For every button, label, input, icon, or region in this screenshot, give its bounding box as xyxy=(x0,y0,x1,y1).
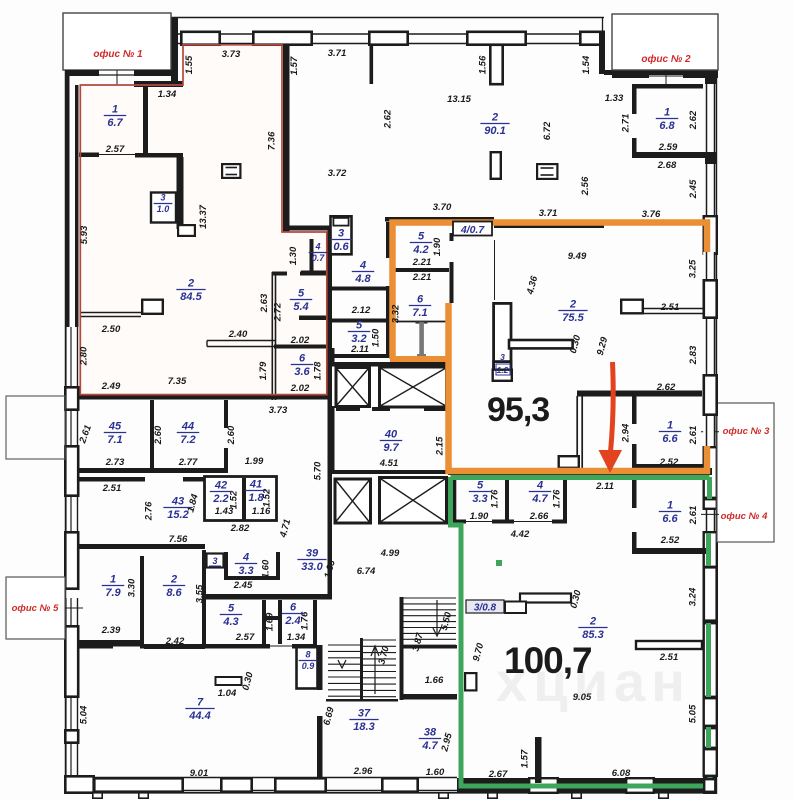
svg-text:9.49: 9.49 xyxy=(568,251,587,262)
wall top of office1 left part xyxy=(65,70,99,76)
svg-text:2.42: 2.42 xyxy=(165,636,185,647)
svg-text:7.36: 7.36 xyxy=(267,131,278,150)
svg-text:45: 45 xyxy=(108,421,122,433)
svg-text:1.34: 1.34 xyxy=(158,89,177,100)
svg-text:2.11: 2.11 xyxy=(595,481,614,492)
room 1-6.6 upper left wall xyxy=(632,396,637,424)
wall below office2 box right xyxy=(683,74,718,78)
svg-text:2.57: 2.57 xyxy=(105,144,125,155)
small wall box on green left edge xyxy=(465,673,476,690)
svg-text:33.0: 33.0 xyxy=(301,561,323,573)
wall above room 1-6.7 xyxy=(134,81,183,87)
svg-text:2.12: 2.12 xyxy=(351,305,371,316)
svg-text:2.56: 2.56 xyxy=(580,176,591,196)
svg-text:1.34: 1.34 xyxy=(287,632,306,643)
svg-text:2.52: 2.52 xyxy=(660,535,680,546)
green dot xyxy=(496,560,502,566)
svg-text:2.57: 2.57 xyxy=(235,632,255,643)
closet divider xyxy=(266,616,278,620)
svg-text:1: 1 xyxy=(667,420,673,432)
svg-text:2.94: 2.94 xyxy=(621,423,632,443)
I-beam column symbol xyxy=(416,321,428,324)
right bottom corner block xyxy=(703,777,717,794)
wall y~546 top of rooms row xyxy=(79,544,205,549)
svg-text:2.68: 2.68 xyxy=(657,160,677,171)
rooms 5-4.3 6-2.4 walls xyxy=(262,600,266,644)
room 3 box xyxy=(207,554,224,568)
door box on 95.3 bottom wall xyxy=(559,456,579,468)
svg-text:4.99: 4.99 xyxy=(380,548,400,559)
svg-text:1.79: 1.79 xyxy=(258,361,269,380)
left bottom corner block xyxy=(64,776,79,794)
svg-text:15.2: 15.2 xyxy=(167,509,188,521)
tick xyxy=(439,793,448,798)
svg-text:2.80: 2.80 xyxy=(79,346,90,366)
svg-text:2.11: 2.11 xyxy=(350,344,369,355)
rooms 5-3.3 and 4-4.7 walls xyxy=(453,479,457,523)
svg-text:2: 2 xyxy=(187,278,194,290)
elevator shaft S4 xyxy=(380,478,447,524)
bottom wall pier xyxy=(221,778,251,791)
office 1 leader xyxy=(116,70,118,85)
svg-text:0.7: 0.7 xyxy=(312,253,326,263)
svg-text:2.72: 2.72 xyxy=(273,302,284,322)
svg-text:0.6: 0.6 xyxy=(333,241,349,253)
rooms 1-7.9 2-8.6 walls xyxy=(140,556,144,644)
svg-text:9.01: 9.01 xyxy=(190,768,209,779)
T-wall horizontal channel xyxy=(509,340,573,348)
right wall pier re-over orange xyxy=(704,375,717,414)
door line xyxy=(466,521,492,523)
svg-text:1.16: 1.16 xyxy=(252,506,271,517)
left wall double line upper part xyxy=(65,70,70,327)
room 4-3.3 walls xyxy=(224,552,228,580)
staircase flight B treads right xyxy=(363,639,396,641)
svg-text:2.62: 2.62 xyxy=(383,109,394,129)
svg-text:4.8: 4.8 xyxy=(354,273,371,285)
top wall of 95.3 region (under orange) xyxy=(385,217,494,222)
wall between rooms 84.5 and 90.1 xyxy=(283,45,290,232)
svg-text:1.33: 1.33 xyxy=(605,93,624,104)
svg-text:6.8: 6.8 xyxy=(659,120,675,132)
corridor bottom wall y~597 xyxy=(205,594,332,600)
red outline office 1 apartment xyxy=(80,45,326,395)
svg-text:2.02: 2.02 xyxy=(290,383,310,394)
svg-text:2.66: 2.66 xyxy=(529,511,549,522)
staircase flight B treads left xyxy=(328,644,360,646)
svg-text:6.6: 6.6 xyxy=(662,513,678,525)
svg-text:2.21: 2.21 xyxy=(412,257,432,268)
svg-text:4/0.7: 4/0.7 xyxy=(460,224,486,236)
tick xyxy=(93,793,102,798)
svg-text:2.59: 2.59 xyxy=(658,142,678,153)
svg-text:6.74: 6.74 xyxy=(357,566,376,577)
wall above room 6-3.6 xyxy=(274,345,330,349)
exterior top-right wall (office 2 block) xyxy=(604,70,718,75)
svg-text:2.60: 2.60 xyxy=(226,425,237,445)
svg-text:4.42: 4.42 xyxy=(510,529,530,540)
svg-text:2.50: 2.50 xyxy=(101,324,121,335)
svg-text:0.9: 0.9 xyxy=(302,661,315,671)
room 4-0.7b box xyxy=(453,222,492,236)
svg-text:1.90: 1.90 xyxy=(432,237,443,256)
exterior top wall xyxy=(171,17,604,19)
wall 2.51 upper with end box xyxy=(621,300,643,314)
svg-text:1.30: 1.30 xyxy=(288,246,299,265)
wall stub 0.30 (near 2-85.3) xyxy=(520,594,571,603)
end box of wall 2.50 xyxy=(142,300,163,314)
svg-text:3.3: 3.3 xyxy=(238,565,253,577)
wall x 576-583 vertical xyxy=(576,396,578,468)
right wall pier xyxy=(704,749,717,776)
top wall pier xyxy=(580,32,603,45)
svg-text:4: 4 xyxy=(314,242,320,252)
bottom wall pier (green zone) xyxy=(529,778,558,793)
svg-text:1.55: 1.55 xyxy=(184,55,195,74)
svg-text:13.15: 13.15 xyxy=(447,94,471,105)
svg-text:1.57: 1.57 xyxy=(520,749,531,768)
wall in 5-4.2 column xyxy=(392,268,449,272)
svg-text:3.24: 3.24 xyxy=(688,587,699,606)
wall between 44.4 and 37-18.3 xyxy=(317,645,323,690)
wall below room 4-4.8 xyxy=(330,287,388,291)
green outline 100.7 office xyxy=(451,475,710,480)
left wall pier xyxy=(65,446,78,495)
svg-text:5.4: 5.4 xyxy=(293,301,308,313)
svg-text:13.37: 13.37 xyxy=(198,204,209,228)
right wall pier (green) xyxy=(704,532,717,567)
bottom wall pier xyxy=(275,778,325,791)
wall stub 1.57 bottom xyxy=(535,737,542,783)
right wall pier xyxy=(704,499,717,509)
svg-text:1.76: 1.76 xyxy=(552,489,563,508)
lobby walls around 40-9.7 xyxy=(330,470,450,474)
svg-text:1: 1 xyxy=(667,500,673,512)
svg-text:5.93: 5.93 xyxy=(79,225,90,244)
rooms 42-2.2 41-1.8 box xyxy=(205,477,277,521)
T-wall vertical channel xyxy=(494,303,511,378)
door line room 1-6.7 xyxy=(99,154,135,156)
svg-text:3.71: 3.71 xyxy=(328,48,347,59)
svg-text:1.66: 1.66 xyxy=(425,675,444,686)
svg-text:офис № 5: офис № 5 xyxy=(12,603,59,614)
svg-text:3.71: 3.71 xyxy=(539,208,558,219)
room 1-6.6 lower bottom wall thick xyxy=(632,548,707,554)
wall 2.40 double xyxy=(207,340,275,342)
svg-text:44: 44 xyxy=(181,421,194,433)
svg-text:41: 41 xyxy=(249,479,262,491)
right wall pier (green) xyxy=(704,728,717,748)
svg-text:5: 5 xyxy=(298,288,305,300)
red arrow xyxy=(611,362,614,452)
corridor wall x~328 lower xyxy=(328,400,333,598)
right wall pier (green) xyxy=(704,623,717,697)
svg-text:5: 5 xyxy=(477,480,484,492)
left balcony outline xyxy=(6,396,65,459)
svg-text:1.04: 1.04 xyxy=(218,688,237,699)
left wall pier xyxy=(65,626,78,696)
room 3-1.2 box xyxy=(494,362,511,379)
svg-text:5: 5 xyxy=(228,603,235,615)
right wall window covers over orange xyxy=(703,252,714,280)
svg-text:1.69: 1.69 xyxy=(265,612,276,631)
svg-text:1.0: 1.0 xyxy=(157,204,170,214)
svg-text:2: 2 xyxy=(569,299,576,311)
svg-text:38: 38 xyxy=(424,727,437,739)
box 3-0.8 xyxy=(505,602,526,614)
svg-text:офис № 1: офис № 1 xyxy=(93,48,143,60)
svg-text:6.72: 6.72 xyxy=(542,121,553,140)
svg-text:2.62: 2.62 xyxy=(656,382,676,393)
svg-text:2.73: 2.73 xyxy=(105,457,125,468)
svg-text:7: 7 xyxy=(197,697,204,709)
svg-text:2: 2 xyxy=(491,112,498,124)
svg-text:3: 3 xyxy=(500,352,505,362)
svg-text:44.4: 44.4 xyxy=(188,710,210,722)
stairwell left wall xyxy=(400,597,404,700)
right wall pier re-over orange xyxy=(704,280,717,317)
svg-text:3.6: 3.6 xyxy=(294,366,310,378)
wall below room 5-5.4 xyxy=(299,316,328,321)
shafts S1-S2 bottom ledge xyxy=(336,407,360,411)
left wall of small rooms cluster xyxy=(271,272,273,400)
svg-text:2.51: 2.51 xyxy=(102,483,122,494)
tick xyxy=(659,793,668,798)
svg-text:3.72: 3.72 xyxy=(328,168,347,179)
stairs arrow A xyxy=(436,600,438,634)
bottom wall dark band under green xyxy=(457,778,712,792)
stairs chevron xyxy=(338,660,346,668)
wall piece left of stairs xyxy=(400,694,457,700)
pier stub 1.56 xyxy=(490,45,502,84)
svg-text:3.76: 3.76 xyxy=(642,209,661,220)
window rect in room 90.1 left xyxy=(222,164,240,178)
tick xyxy=(488,793,497,798)
svg-text:1.50: 1.50 xyxy=(371,328,382,347)
room 8-0.9 box xyxy=(297,647,318,689)
svg-text:3: 3 xyxy=(212,556,217,566)
svg-text:3.70: 3.70 xyxy=(433,202,452,213)
bottom wall 5-3.3 seg xyxy=(452,520,466,524)
svg-text:2.52: 2.52 xyxy=(659,457,679,468)
room 1-6.6 lower xyxy=(632,480,637,508)
bottom wall outer face xyxy=(64,792,717,794)
svg-text:7.9: 7.9 xyxy=(105,587,121,599)
svg-text:1.2: 1.2 xyxy=(497,365,509,375)
wall stub lower xyxy=(491,152,501,179)
svg-text:2.49: 2.49 xyxy=(101,381,121,392)
svg-text:5: 5 xyxy=(418,231,425,243)
svg-text:5.04: 5.04 xyxy=(79,705,90,724)
svg-text:100,7: 100,7 xyxy=(504,640,592,681)
corridor wall x~328 xyxy=(328,230,333,400)
wall jog to corridor xyxy=(288,226,330,231)
svg-text:1.90: 1.90 xyxy=(470,511,489,522)
right wall pier xyxy=(704,567,717,620)
top wall pier xyxy=(181,32,219,45)
svg-text:офис № 3: офис № 3 xyxy=(723,426,770,437)
room 1-6.7 right wall xyxy=(143,87,148,153)
svg-text:1: 1 xyxy=(110,574,116,586)
svg-text:3.32: 3.32 xyxy=(391,304,402,323)
svg-text:3.2: 3.2 xyxy=(351,333,366,345)
left wall pier xyxy=(65,730,78,742)
svg-text:4.7: 4.7 xyxy=(421,740,438,752)
svg-text:2.51: 2.51 xyxy=(660,302,680,313)
svg-text:2.61: 2.61 xyxy=(688,506,699,526)
wall above shafts S1 S2 xyxy=(330,362,450,367)
svg-text:8.6: 8.6 xyxy=(166,587,182,599)
top-right corner wall xyxy=(602,17,604,32)
door line office1 entry xyxy=(99,74,134,76)
tick xyxy=(572,793,581,798)
svg-text:7.1: 7.1 xyxy=(107,434,122,446)
window sill in room 44.4 xyxy=(216,677,242,685)
svg-text:3: 3 xyxy=(160,193,165,203)
elevator shaft S1 xyxy=(336,368,370,407)
wall 3.71 segment xyxy=(494,222,604,228)
top wall pier xyxy=(467,32,525,45)
svg-text:6.08: 6.08 xyxy=(612,768,631,779)
svg-text:39: 39 xyxy=(306,548,319,560)
svg-text:2.63: 2.63 xyxy=(259,293,270,313)
svg-text:3.3: 3.3 xyxy=(472,493,487,505)
left wall pier xyxy=(65,532,78,588)
main wall under orange/green band xyxy=(448,468,712,475)
svg-text:1.60: 1.60 xyxy=(261,559,272,578)
stairwell mid landing wall xyxy=(400,645,457,649)
bottom wall pier (green zone) xyxy=(626,778,654,793)
svg-text:3.73: 3.73 xyxy=(269,405,288,416)
staircase flight A treads xyxy=(402,597,456,599)
svg-text:1.99: 1.99 xyxy=(245,456,264,467)
office 5 label box xyxy=(6,577,65,639)
wall below office2 box left xyxy=(612,74,649,78)
svg-text:4.3: 4.3 xyxy=(222,616,238,628)
svg-text:2.77: 2.77 xyxy=(178,457,198,468)
left wall outer face xyxy=(65,70,67,777)
office 3 leader xyxy=(701,431,719,433)
svg-text:95,3: 95,3 xyxy=(487,391,549,429)
office 1 label box xyxy=(63,13,171,70)
right wall pier xyxy=(704,375,717,414)
svg-text:2.67: 2.67 xyxy=(488,769,508,780)
tick xyxy=(139,793,148,798)
left wall pier xyxy=(65,387,78,409)
flight B bottom line xyxy=(326,699,398,702)
room 4-0.7a walls xyxy=(310,239,314,272)
wall 2.39 xyxy=(79,640,142,646)
svg-text:7.2: 7.2 xyxy=(180,434,195,446)
wall above rooms 2.94/1-6.6 xyxy=(577,391,702,397)
elevator shaft S3 xyxy=(335,479,371,523)
svg-text:84.5: 84.5 xyxy=(180,291,202,303)
right wall corner block xyxy=(705,74,717,84)
top wall pier xyxy=(369,32,407,45)
svg-text:2.60: 2.60 xyxy=(153,425,164,445)
svg-text:1.57: 1.57 xyxy=(289,56,300,75)
room 3-0.6 box xyxy=(331,216,352,254)
svg-text:6: 6 xyxy=(299,353,306,365)
right wall pier xyxy=(704,280,717,317)
svg-text:43: 43 xyxy=(171,496,184,508)
svg-text:3/0.8: 3/0.8 xyxy=(474,603,497,614)
svg-text:5.70: 5.70 xyxy=(313,461,324,480)
top-left wall corner xyxy=(171,17,178,87)
wall stub 1.57 from top wall xyxy=(370,45,374,84)
bottom left corner box xyxy=(65,776,93,792)
svg-text:4: 4 xyxy=(359,260,366,272)
svg-text:3.73: 3.73 xyxy=(222,49,241,60)
svg-text:9.7: 9.7 xyxy=(383,442,399,454)
wall x~450 (corridor/small col) xyxy=(450,233,454,241)
svg-text:2.39: 2.39 xyxy=(101,625,121,636)
room 1-6.7 bottom wall left xyxy=(79,153,99,158)
divider 42/41 xyxy=(242,478,246,520)
exterior right wall band xyxy=(706,74,708,777)
svg-text:2.62: 2.62 xyxy=(688,110,699,130)
duct box beside room 3-1.0 xyxy=(178,225,195,236)
wall top office1 right part xyxy=(134,70,172,76)
top wall pier xyxy=(253,32,311,45)
office 3-4 label box xyxy=(717,403,774,542)
wall x176-183 down to duct xyxy=(177,157,184,229)
svg-text:2.45: 2.45 xyxy=(233,580,253,591)
window rect in room 90.1 right xyxy=(537,164,557,179)
svg-text:2.61: 2.61 xyxy=(688,426,699,446)
wall top of room 5-5.4 xyxy=(272,272,287,276)
svg-text:9.05: 9.05 xyxy=(573,692,592,703)
svg-text:2.40: 2.40 xyxy=(228,329,248,340)
svg-text:офис № 4: офис № 4 xyxy=(721,511,768,522)
svg-text:7.1: 7.1 xyxy=(412,307,427,319)
bottom wall of office1 xyxy=(79,394,332,400)
svg-text:3.30: 3.30 xyxy=(127,578,138,597)
svg-text:6.7: 6.7 xyxy=(107,117,123,129)
svg-text:2.2: 2.2 xyxy=(212,493,228,505)
rooms 45-7.1 44-7.2 walls xyxy=(150,400,154,470)
svg-text:75.5: 75.5 xyxy=(562,312,584,324)
door of room 3-0.6 xyxy=(333,218,348,226)
svg-text:4.7: 4.7 xyxy=(531,493,548,505)
svg-text:6: 6 xyxy=(290,602,297,614)
elevator shaft S2 xyxy=(380,367,447,407)
door line office2 xyxy=(649,75,683,77)
svg-text:2.02: 2.02 xyxy=(290,335,310,346)
svg-text:1.43: 1.43 xyxy=(215,506,234,517)
wall above room 5-3.2 xyxy=(330,319,388,323)
corridor wall y~479 xyxy=(79,477,145,482)
svg-text:7.35: 7.35 xyxy=(168,376,187,387)
svg-text:1.56: 1.56 xyxy=(478,55,489,74)
svg-text:2.71: 2.71 xyxy=(621,114,632,134)
door line xyxy=(514,521,552,523)
wall 2.42 xyxy=(144,644,205,649)
svg-text:1: 1 xyxy=(664,107,670,119)
office1 pink tint underlay xyxy=(80,45,326,395)
bottom wall pier xyxy=(382,778,417,791)
svg-text:3.55: 3.55 xyxy=(195,584,206,603)
wall y153 x135-183 xyxy=(135,153,183,158)
office 4 leader xyxy=(701,513,719,515)
svg-text:2.45: 2.45 xyxy=(688,179,699,199)
svg-text:1: 1 xyxy=(112,104,118,116)
door box at shaft S2 right xyxy=(493,370,512,381)
room label 3/0.8 boxed xyxy=(466,600,504,613)
svg-text:42: 42 xyxy=(214,480,227,492)
office 5 leader xyxy=(65,607,83,609)
bottom wall pier xyxy=(94,778,182,791)
